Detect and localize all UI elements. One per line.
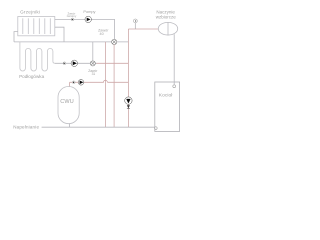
svg-text:31: 31 (92, 72, 96, 76)
pump P4 boiler (125, 97, 132, 104)
wire expansion vessel line y29 (128, 28, 158, 30)
wire CWU bottom stub (69, 124, 71, 128)
wire main riser x128 (127, 29, 129, 127)
valve Zawor 31 (90, 61, 95, 66)
pump P2 underfloor (71, 60, 77, 66)
wire line C underfloor gray part (55, 62, 97, 64)
radiator (Grzejniki) (18, 17, 55, 36)
pump P1 radiators (85, 16, 91, 22)
air vent on vessel line (133, 19, 137, 29)
label Naczynie wzbiorcze (156, 10, 177, 20)
svg-text:40: 40 (100, 32, 104, 36)
label Zawor 31 (88, 69, 98, 76)
wire pink vertical x114 below valve (113, 44, 115, 127)
check valve on line E (72, 81, 75, 84)
wire vessel to boiler vertical (173, 34, 175, 85)
boiler connection top circle (173, 85, 176, 88)
boiler connection bottom circle (154, 127, 157, 130)
svg-text:Kocioł: Kocioł (159, 92, 173, 98)
wire line B horizontal y42 (14, 41, 128, 43)
label Zawor zwrotny (67, 11, 77, 18)
CWU tank (58, 87, 79, 124)
wire CWU charge line E (70, 80, 129, 86)
valve Zawor 40 (112, 39, 117, 44)
svg-text:zwrotny: zwrotny (67, 14, 77, 18)
wire bottom filling line (42, 126, 155, 128)
check valve below boiler pump (127, 105, 130, 108)
expansion vessel (158, 22, 177, 35)
wire drop to valve Z31 (92, 42, 94, 61)
wire radiator bottom-right drop (55, 27, 64, 42)
svg-text:Podłogówka: Podłogówka (19, 74, 44, 79)
svg-text:wzbiorcze: wzbiorcze (156, 15, 177, 20)
label Zawor 40 (98, 28, 109, 36)
svg-text:Napełnianie: Napełnianie (13, 125, 39, 130)
wire pink vertical x105 (104, 42, 106, 127)
wire line C underfloor pink part (97, 62, 129, 64)
underfloor heating coil (Podlogowka) (20, 42, 55, 71)
pump P3 CWU (78, 80, 84, 86)
svg-text:Grzejniki: Grzejniki (20, 9, 40, 14)
check valve on line C (63, 62, 66, 65)
wire radiator bottom-left return (14, 32, 18, 42)
svg-text:CWU: CWU (60, 99, 74, 105)
wire radiator supply line A (55, 19, 115, 39)
svg-text:Pompy: Pompy (83, 9, 95, 14)
boiler (Kociol) (155, 82, 180, 131)
check valve on line A (71, 18, 74, 21)
